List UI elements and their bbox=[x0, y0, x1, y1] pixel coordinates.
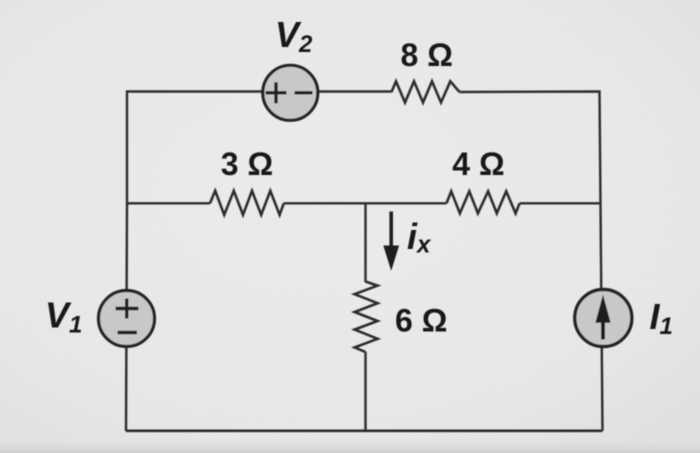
resistor 8-ohm (top) bbox=[392, 81, 460, 102]
label 8-ohm value bbox=[401, 37, 453, 73]
wire middle left segment to 3-ohm bbox=[127, 202, 210, 204]
label 3-ohm value bbox=[221, 146, 273, 182]
wire middle vertical upper (center node to 6-ohm) bbox=[364, 203, 366, 282]
wire middle between 3-ohm and 4-ohm (through center node) bbox=[284, 202, 447, 204]
svg-text:4 Ω: 4 Ω bbox=[452, 146, 504, 182]
voltage source V1 (circle, + top, - bottom) bbox=[99, 291, 155, 347]
current arrow ix (pointing down at center node) bbox=[383, 212, 399, 271]
resistor 4-ohm bbox=[447, 191, 520, 213]
wire V2 to 8-ohm resistor bbox=[318, 90, 392, 92]
label I1 bbox=[650, 296, 673, 340]
label V1 bbox=[45, 295, 82, 339]
wire bottom bbox=[126, 429, 603, 432]
label ix bbox=[407, 216, 432, 259]
svg-text:8 Ω: 8 Ω bbox=[401, 37, 453, 73]
resistor 6-ohm (vertical) bbox=[355, 282, 378, 352]
wire middle right segment 4-ohm to right wire bbox=[520, 202, 601, 204]
wire top-left to V2 (top wire left segment) bbox=[127, 92, 262, 204]
wire middle vertical lower (6-ohm to bottom wire) bbox=[364, 352, 366, 431]
voltage source V2 (circle, + left, - right) bbox=[263, 65, 318, 120]
svg-text:6 Ω: 6 Ω bbox=[395, 303, 447, 339]
wire 8-ohm to top-right corner bbox=[460, 92, 603, 431]
svg-text:3 Ω: 3 Ω bbox=[221, 146, 273, 182]
label V2 bbox=[275, 14, 313, 58]
label 6-ohm value bbox=[395, 303, 447, 339]
label 4-ohm value bbox=[452, 146, 504, 182]
wire left vertical (V1 branch) bbox=[126, 203, 127, 431]
resistor 3-ohm bbox=[210, 191, 284, 215]
current source I1 (circle, arrow up) bbox=[575, 290, 632, 347]
